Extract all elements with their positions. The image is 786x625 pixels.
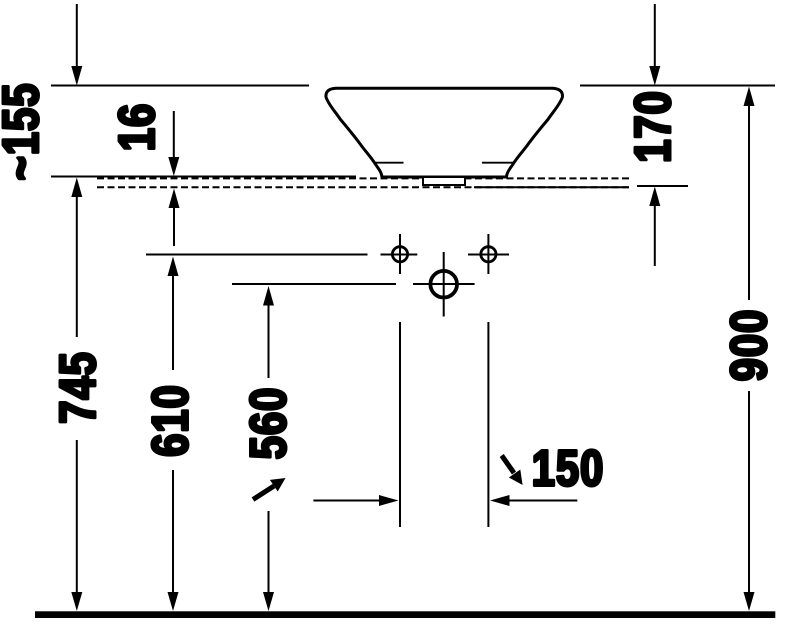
label ~155 xyxy=(3,85,39,179)
faucet hole left crosshair xyxy=(399,234,401,274)
label 745 xyxy=(60,354,96,422)
basin foot rectangle xyxy=(423,177,465,185)
dimension 16 lower arrow xyxy=(169,189,180,247)
drain circle crosshair xyxy=(443,252,445,317)
dimension ~155 top arrow xyxy=(71,4,82,86)
dimension 150 right-pointing arrow xyxy=(313,495,398,506)
counter dashed line lower xyxy=(97,186,629,188)
dimension 16 upper arrow xyxy=(168,111,179,176)
dimension 150 left extension line xyxy=(399,322,401,527)
dimension 150 leader arrow xyxy=(502,456,523,486)
label 560 leader arrow xyxy=(253,478,286,500)
dimension 150 right extension line xyxy=(487,322,489,527)
label 170 xyxy=(634,93,670,160)
floor line xyxy=(35,611,775,618)
dimension 170 bottom arrow xyxy=(649,187,660,267)
dimension 900 line xyxy=(744,87,755,612)
counter dashed line upper xyxy=(97,177,629,179)
top reference line left segment xyxy=(51,85,309,87)
drain circle xyxy=(430,271,457,298)
faucet hole right crosshair xyxy=(487,234,489,274)
counter hidden edge solid segment xyxy=(474,186,629,188)
basin inner ledge left xyxy=(374,162,404,164)
label 560 xyxy=(250,390,286,458)
dimension 150 left-pointing arrow xyxy=(490,495,577,506)
faucet hole line xyxy=(146,254,509,256)
top reference line right segment xyxy=(580,85,775,87)
label 150 xyxy=(534,450,601,486)
dimension 745 line xyxy=(71,178,82,612)
dimension 170 terminator line xyxy=(637,185,688,187)
dimension 170 top arrow xyxy=(649,4,660,86)
label 16 xyxy=(118,105,154,148)
dimension 560 line xyxy=(263,286,274,611)
basin inner ledge right xyxy=(482,162,514,164)
faucet hole left circle xyxy=(392,247,407,262)
faucet hole right circle xyxy=(481,247,496,262)
basin outline xyxy=(326,88,563,177)
label 900 xyxy=(730,312,766,380)
dimension 610 line xyxy=(168,257,179,612)
label 610 xyxy=(152,387,188,455)
drain level line xyxy=(232,283,475,285)
counter top line xyxy=(51,176,356,178)
